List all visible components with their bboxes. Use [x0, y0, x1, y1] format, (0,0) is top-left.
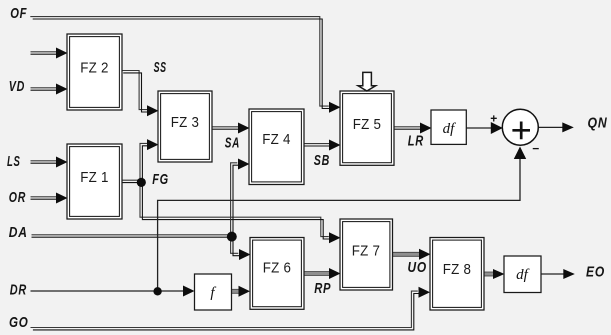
wire LS input into FZ1 pin 1	[31, 161, 58, 163]
arrowhead into FZ8 pin 2	[419, 287, 431, 298]
wire SB net: FZ4 output to FZ5 input 2	[304, 144, 330, 146]
svg-text:SS: SS	[154, 59, 167, 76]
box df (upper defuzzifier)	[431, 110, 466, 144]
arrowhead into FZ8 pin 1	[419, 249, 431, 260]
arrowhead into f box	[183, 286, 195, 297]
wire df2 output to EO	[541, 273, 564, 275]
svg-text:df: df	[443, 121, 457, 137]
wire DA input line to node on DA net	[32, 235, 232, 237]
wire GO input line up into FZ8 input 2	[31, 291, 421, 330]
wire UO net: FZ7 output to FZ8 input 1 (thick)	[393, 252, 420, 257]
svg-text:FZ 3: FZ 3	[171, 114, 200, 131]
wire DA branch up into FZ4 input 2	[231, 163, 240, 237]
svg-text:+: +	[490, 111, 497, 125]
wire df to summer plus input	[466, 127, 493, 129]
block FZ6	[250, 238, 304, 310]
svg-text:DA: DA	[9, 224, 28, 241]
wire DR input line to f box	[31, 290, 185, 292]
wire LR net: FZ5 output to df box	[394, 127, 421, 129]
summer U1 (summing junction)	[502, 109, 538, 145]
wire SS net: FZ2 output to FZ3 input 1	[121, 71, 150, 113]
svg-text:SB: SB	[314, 152, 330, 169]
block FZ4	[249, 109, 304, 185]
svg-text:FZ 4: FZ 4	[262, 131, 291, 148]
arrowhead into df box	[420, 123, 432, 134]
node DA junction dot	[227, 232, 237, 242]
svg-text:UO: UO	[408, 259, 428, 276]
wire SA net: FZ3 output to FZ4 input 1	[212, 127, 239, 129]
arrowhead into FZ2 pin 2	[56, 84, 68, 95]
svg-text:FZ 1: FZ 1	[80, 169, 109, 186]
svg-text:EO: EO	[586, 264, 605, 281]
arrowhead into df2 box	[493, 269, 505, 279]
svg-text:RP: RP	[314, 280, 331, 297]
block FZ1	[67, 144, 122, 219]
wire f box to FZ6 input 2 (thick)	[232, 289, 240, 294]
svg-text:FG: FG	[152, 171, 169, 188]
wire summer output to QN	[538, 126, 563, 128]
arrowhead into FZ4 pin 1	[238, 123, 250, 134]
svg-text:FZ 7: FZ 7	[352, 243, 381, 260]
wire OF net: from OF label right, down into FZ5 input 1	[30, 17, 331, 109]
arrowhead into FZ5 pin 2	[329, 140, 341, 151]
wire RP net: FZ6 output to FZ7 input 2 (thick)	[304, 271, 329, 276]
wire FG branch down and right into FZ7 input 1	[140, 181, 331, 239]
wire FG branch up into FZ3 input 2	[140, 143, 150, 184]
hollow block arrow above FZ5	[358, 72, 376, 91]
arrowhead into FZ6 pin 2	[239, 286, 251, 297]
arrowhead into FZ3 pin 2	[147, 139, 159, 150]
wire VD input into FZ2 pin 2	[31, 88, 58, 90]
node FG junction dot	[137, 178, 146, 187]
block FZ5	[340, 91, 394, 165]
block FZ7	[340, 219, 393, 290]
svg-text:GO: GO	[9, 314, 29, 331]
svg-text:−: −	[532, 141, 539, 155]
box df2 (lower defuzzifier)	[504, 256, 541, 293]
node DR junction dot	[153, 287, 161, 295]
svg-text:FZ 2: FZ 2	[80, 60, 109, 77]
arrowhead into FZ3 pin 1	[147, 105, 159, 116]
block FZ3	[158, 91, 212, 162]
wire DR feedback to summer minus input	[158, 157, 520, 291]
wire OR input into FZ1 pin 2	[31, 197, 58, 199]
svg-text:LS: LS	[7, 153, 21, 170]
arrowhead into FZ7 pin 2	[329, 268, 341, 279]
svg-text:OF: OF	[10, 5, 27, 22]
block FZ8	[430, 238, 484, 311]
arrowhead into FZ4 pin 2	[238, 159, 250, 170]
arrowhead into FZ2 pin 1	[56, 48, 68, 59]
svg-text:LR: LR	[408, 133, 424, 150]
wire FZ1 output stub to node FG	[122, 180, 141, 182]
arrowhead into summer minus input (pointing up)	[514, 147, 526, 160]
arrowhead into FZ5 pin 1	[329, 102, 341, 113]
svg-text:df: df	[516, 267, 530, 283]
svg-text:OR: OR	[9, 189, 26, 206]
svg-text:SA: SA	[225, 135, 240, 152]
arrowhead into FZ1 pin 2	[56, 193, 68, 204]
arrowhead EO output	[563, 269, 575, 279]
arrowhead into FZ1 pin 1	[56, 157, 68, 168]
svg-text:FZ 5: FZ 5	[353, 116, 382, 133]
svg-text:DR: DR	[10, 282, 27, 299]
svg-text:FZ 6: FZ 6	[263, 260, 292, 277]
arrowhead into FZ7 pin 1	[329, 232, 341, 243]
arrowhead into FZ6 pin 1	[239, 249, 251, 260]
wire DA branch down into FZ6 input 1	[231, 235, 241, 256]
svg-text:QN: QN	[588, 115, 608, 132]
block FZ2	[67, 34, 122, 110]
wire input stub into FZ2 pin 1	[31, 52, 58, 54]
arrowhead into summer plus input	[491, 122, 503, 134]
box f (function block)	[195, 274, 232, 310]
svg-text:FZ 8: FZ 8	[443, 261, 472, 278]
svg-text:VD: VD	[9, 78, 25, 95]
wire FZ8 output to df2 (thick)	[484, 272, 493, 277]
arrowhead QN output	[562, 122, 574, 132]
